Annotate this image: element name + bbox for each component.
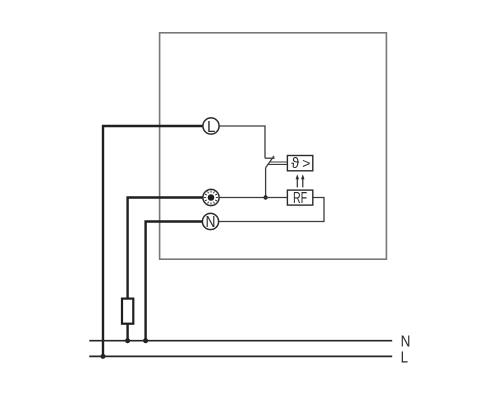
device enclosure outline xyxy=(160,33,387,259)
N bus line (bottom) xyxy=(89,340,392,342)
wire switch to junction xyxy=(265,168,267,198)
svg-text:L: L xyxy=(207,119,216,136)
wire resistor to N bus xyxy=(126,324,128,341)
L bus line (bottom) xyxy=(89,355,392,357)
svg-text:ϑ: ϑ xyxy=(291,156,299,172)
wire lamp terminal to RF box xyxy=(219,197,287,199)
terminal N (circle) xyxy=(202,213,218,229)
switch fixed contact stub xyxy=(265,157,275,159)
signal arrow 1 (up) xyxy=(296,178,298,188)
thermostat box (theta>) xyxy=(287,156,312,171)
resistor load R1 xyxy=(122,299,133,324)
mechanical link (double line) switch to thermostat xyxy=(270,161,288,163)
junction dot node A xyxy=(263,195,267,199)
switch blade S1 xyxy=(266,156,274,168)
junction dot resistor / N bus xyxy=(125,338,130,343)
terminal L (circle) xyxy=(203,118,219,134)
svg-text:RF: RF xyxy=(293,190,307,207)
junction dot N wire / N bus xyxy=(143,338,148,343)
junction dot on L bus xyxy=(101,354,106,359)
svg-text:N: N xyxy=(401,334,411,351)
svg-text:>: > xyxy=(302,155,310,171)
signal arrow 2 (up) xyxy=(302,178,304,188)
wire N external (bold, from terminal N left down to N bus) xyxy=(146,222,203,341)
wire terminal L to switch (thin) xyxy=(219,126,265,158)
svg-text:L: L xyxy=(401,349,409,366)
terminal lamp/load (circle with sun symbol) xyxy=(203,189,219,205)
wire load external (bold, from lamp terminal left, down to resistor) xyxy=(128,198,203,300)
wire RF box to terminal N xyxy=(219,198,324,222)
wire L external (bold, from terminal L left to bottom L bus) xyxy=(103,126,203,356)
RF receiver box U1 xyxy=(287,190,312,205)
svg-text:N: N xyxy=(206,214,216,231)
